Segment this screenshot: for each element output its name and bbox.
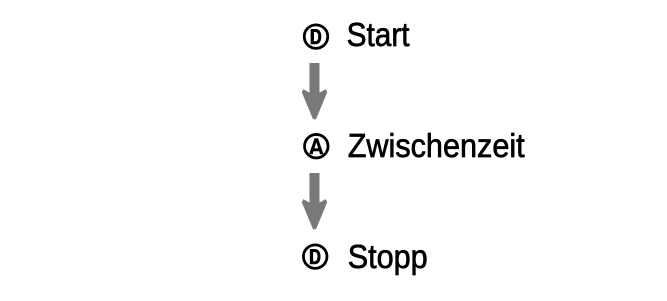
svg-text:Stopp: Stopp xyxy=(348,238,428,275)
button symbol D (Start) xyxy=(304,25,328,49)
arrow from Start to Zwischenzeit xyxy=(302,63,327,119)
svg-text:Zwischenzeit: Zwischenzeit xyxy=(348,127,525,164)
arrow from Zwischenzeit to Stopp xyxy=(302,173,327,229)
svg-text:Start: Start xyxy=(347,16,410,53)
button symbol D (Stopp) xyxy=(303,245,327,269)
button symbol A (Zwischenzeit) xyxy=(305,134,329,158)
